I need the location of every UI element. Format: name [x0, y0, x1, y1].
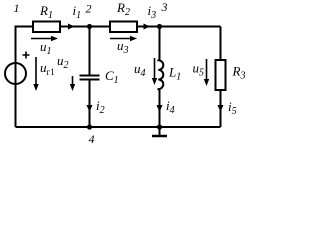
voltage arrow u4: [154, 58, 156, 81]
inductor branch upper wire: [159, 27, 161, 61]
bottom wire: [16, 126, 221, 128]
capacitor branch upper wire: [89, 27, 91, 76]
ground: [159, 127, 161, 135]
wire right branch upper: [220, 27, 222, 61]
svg-text:1: 1: [14, 1, 20, 15]
svg-text:2: 2: [86, 2, 92, 16]
node 3 junction dot: [157, 24, 162, 29]
junction dot bottom-C1: [87, 124, 92, 129]
resistor R2: [110, 22, 137, 33]
capacitor branch lower wire: [89, 80, 91, 128]
current arrow i1: [68, 24, 75, 30]
voltage arrow u_г1 (source EMF voltage): [35, 57, 37, 87]
current arrow i3: [144, 24, 151, 30]
junction dot bottom-L1: [157, 124, 162, 129]
voltage arrow u5: [206, 59, 208, 82]
current arrow i2: [87, 105, 93, 112]
node 2 junction dot: [87, 24, 92, 29]
wire R1 to R2: [60, 26, 110, 28]
left wire: [15, 27, 17, 128]
wire top-left segment (node1 to R1): [16, 27, 34, 37]
resistor R3: [216, 60, 226, 90]
voltage source circle: [5, 63, 26, 84]
voltage arrow u3: [110, 38, 133, 40]
svg-text:3: 3: [161, 0, 168, 14]
inductor L1: [158, 60, 163, 89]
capacitor C1: [80, 75, 100, 77]
voltage arrow u1: [31, 38, 54, 40]
inductor branch lower wire: [159, 89, 161, 128]
current arrow i4: [157, 105, 163, 112]
resistor R1: [33, 22, 60, 33]
plus sign: [23, 52, 30, 59]
current arrow i5: [218, 105, 224, 112]
svg-text:4: 4: [89, 132, 95, 146]
wire right branch lower: [220, 90, 222, 127]
wire R2 to top-right corner: [137, 26, 221, 28]
